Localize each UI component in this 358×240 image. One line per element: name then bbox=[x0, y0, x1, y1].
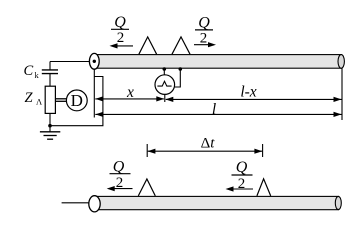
top cable left end ellipse (coax end) bbox=[89, 53, 99, 69]
bottom cable body bbox=[95, 196, 339, 209]
top cable right end cap bbox=[338, 55, 344, 69]
bottom cable left end ellipse bbox=[89, 196, 100, 212]
pulse meter waveform bbox=[157, 81, 171, 86]
bottom cable right end cap bbox=[335, 196, 341, 209]
svg-text:Q: Q bbox=[113, 158, 125, 175]
pulse triangle 2 (bottom cable) bbox=[257, 179, 271, 196]
fraction bar (bottom-right Q/2) bbox=[232, 174, 253, 176]
svg-text:Z: Z bbox=[25, 90, 34, 106]
fraction bar (bottom-left Q/2) bbox=[110, 173, 131, 175]
right wave arrow (points right) bbox=[194, 44, 214, 46]
top wire to cable bbox=[50, 61, 90, 63]
svg-text:2: 2 bbox=[117, 30, 125, 46]
svg-text:C: C bbox=[24, 63, 34, 79]
right reference line (cable far end) bbox=[341, 68, 343, 120]
svg-text:k: k bbox=[35, 70, 40, 80]
bottom stub wire bbox=[62, 202, 89, 204]
top cable core dot bbox=[93, 60, 96, 63]
double link box to detector bbox=[55, 98, 66, 100]
dimension line delta-t bbox=[148, 150, 262, 152]
svg-text:Λ: Λ bbox=[36, 97, 43, 107]
dimension delta-t right tick bbox=[262, 144, 264, 157]
jog wire to ground rail bbox=[50, 77, 103, 126]
pulse triangle 2 (top cable) bbox=[172, 37, 190, 54]
svg-text:x: x bbox=[126, 84, 134, 101]
svg-text:D: D bbox=[71, 91, 83, 110]
capacitor Ck top plate bbox=[42, 69, 58, 71]
bottom-right wave arrow (points left) bbox=[228, 188, 254, 190]
svg-text:Q: Q bbox=[236, 159, 248, 176]
svg-text:Δt: Δt bbox=[201, 135, 216, 151]
dimension delta-t left tick bbox=[146, 144, 148, 157]
pulse triangle 1 (bottom cable) bbox=[138, 179, 155, 196]
svg-text:Q: Q bbox=[114, 14, 126, 31]
ground junction dot bbox=[48, 124, 52, 128]
wire dot2 to meter right side bbox=[174, 69, 180, 87]
impedance box Z bbox=[45, 86, 55, 113]
svg-text:2: 2 bbox=[200, 30, 208, 46]
left wave arrow (points left) bbox=[112, 45, 134, 47]
junction dot 2 (cable underside) bbox=[179, 67, 183, 71]
pulse triangle 1 (top cable) bbox=[139, 37, 157, 54]
bottom-left wave arrow (points left) bbox=[109, 188, 133, 190]
wire capacitor to impedance box bbox=[49, 74, 51, 87]
detector circle D bbox=[66, 90, 87, 111]
ground stub bbox=[49, 126, 51, 132]
riser wire to capacitor bbox=[49, 62, 51, 71]
svg-text:Q: Q bbox=[198, 14, 210, 31]
svg-text:l: l bbox=[212, 101, 216, 118]
left reference line (cable near end) bbox=[93, 69, 95, 117]
capacitor Ck bottom plate bbox=[42, 73, 58, 75]
wire box to ground junction bbox=[49, 113, 51, 125]
top cable body bbox=[94, 55, 341, 69]
ground symbol bbox=[40, 131, 60, 133]
pulse meter circle bbox=[155, 75, 175, 95]
fraction bar (right Q/2) bbox=[195, 29, 213, 31]
dimension line l-x bbox=[166, 98, 342, 100]
wire dot1 to meter bbox=[163, 69, 165, 75]
junction dot 1 (cable underside) bbox=[163, 67, 167, 71]
tick below meter bbox=[164, 95, 166, 102]
fraction bar (left Q/2) bbox=[111, 28, 129, 30]
svg-text:l-x: l-x bbox=[240, 83, 256, 100]
dimension line x bbox=[95, 98, 164, 100]
dimension line l bbox=[95, 113, 341, 115]
